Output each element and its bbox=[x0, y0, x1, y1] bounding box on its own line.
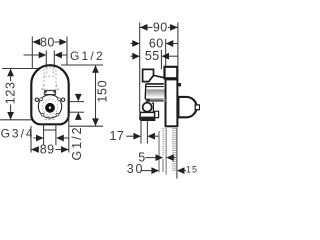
housing step right of circle bbox=[152, 103, 159, 118]
wire: extension line right of 80 dim bbox=[66, 37, 68, 65]
pipe left inner line bbox=[165, 128, 167, 175]
dimension G3/4 leaders bbox=[34, 137, 37, 139]
knob on right face bbox=[178, 83, 181, 86]
spindle bbox=[45, 103, 55, 113]
cartridge shoulder upper line bbox=[154, 75, 165, 77]
wire: long left extension line bbox=[139, 23, 141, 113]
node: outlet upper line right bbox=[69, 101, 84, 103]
arrow to G3/4 right bbox=[56, 135, 64, 142]
dome tab bbox=[195, 105, 199, 110]
wire: extension line left of 80 dim bbox=[31, 37, 33, 69]
svg-text:80: 80 bbox=[40, 35, 55, 49]
pipe left edge below coil bbox=[162, 159, 164, 172]
dimension 150 vertical line bbox=[95, 65, 97, 126]
node: outlet lower line right bbox=[69, 111, 84, 113]
foot bbox=[140, 112, 155, 120]
arrow up to lower line bbox=[75, 112, 82, 120]
svg-text:150: 150 bbox=[96, 80, 110, 103]
wire: right extension line bbox=[177, 23, 179, 66]
svg-text:15: 15 bbox=[186, 165, 198, 175]
arrow 123 top bbox=[7, 69, 14, 77]
wall box cap bbox=[165, 67, 178, 79]
ear screw right bbox=[61, 98, 64, 101]
svg-text:17: 17 bbox=[109, 129, 124, 143]
dimension 80 line bbox=[33, 41, 40, 43]
arrow to stub right bbox=[54, 52, 62, 59]
wire: 17 left extension bbox=[140, 121, 142, 144]
arrow to stub left bbox=[39, 52, 47, 59]
node: 150 top extension line bbox=[61, 64, 103, 66]
arrow 150 top bbox=[92, 65, 99, 73]
wire: 17 right extension bbox=[146, 121, 148, 144]
svg-text:89: 89 bbox=[40, 143, 55, 157]
dome outlet bbox=[178, 97, 196, 117]
pipe threads left coil bbox=[162, 128, 164, 157]
cartridge mid body left edge bbox=[144, 84, 147, 99]
svg-text:G1/2: G1/2 bbox=[70, 125, 84, 160]
wire: 30 left extension line bbox=[158, 131, 160, 173]
flange screw BL bbox=[41, 113, 44, 116]
flange circle bbox=[38, 95, 61, 118]
dimension 5 bbox=[145, 157, 156, 159]
arrow to G3/4 left bbox=[36, 135, 44, 142]
wire: 89 right extension bbox=[68, 113, 70, 153]
wall box main bbox=[166, 79, 178, 126]
cartridge shoulder lower line bbox=[146, 83, 164, 85]
dimension 17 bbox=[126, 135, 134, 137]
node: 123 top extension line bbox=[2, 68, 39, 70]
flange screw BR bbox=[56, 113, 59, 116]
dimension top stub leader lines bbox=[24, 54, 40, 56]
node: 123 bottom extension line bbox=[0, 119, 33, 121]
arrow right 80 bbox=[59, 39, 67, 46]
ear screw left bbox=[35, 98, 38, 101]
node: 150 bottom extension line bbox=[70, 125, 104, 127]
dimension 55 bbox=[131, 55, 134, 57]
wire: 55 extension line bbox=[160, 50, 162, 69]
wire: G1/2 top stub left line bbox=[45, 51, 47, 66]
cartridge dashed outline bbox=[42, 67, 59, 94]
wire: 89 left extension bbox=[30, 126, 32, 153]
handle circle bbox=[143, 103, 152, 112]
dimension 30 bbox=[140, 170, 151, 172]
arrow 150 bottom bbox=[92, 118, 99, 126]
bottom thick line bbox=[145, 98, 163, 100]
dimension 60 bbox=[131, 43, 134, 45]
svg-text:G1/2: G1/2 bbox=[70, 49, 105, 63]
pipe right edge bbox=[176, 128, 178, 179]
flange screw TL bbox=[40, 98, 43, 101]
svg-text:123: 123 bbox=[4, 81, 18, 104]
thin lines above circle bbox=[150, 98, 166, 100]
arrow left 80 bbox=[33, 39, 41, 46]
svg-text:90: 90 bbox=[153, 20, 168, 34]
arrow down to upper line bbox=[75, 94, 82, 102]
cartridge extra line bbox=[146, 86, 164, 88]
cartridge neck bbox=[45, 91, 56, 95]
wire: 60 extension line bbox=[165, 39, 167, 66]
dimension 89 bbox=[31, 149, 39, 151]
svg-text:30: 30 bbox=[127, 162, 145, 176]
dimension 123 vertical line bbox=[10, 69, 12, 82]
dimension 90 bbox=[140, 26, 153, 28]
svg-text:55: 55 bbox=[145, 49, 160, 63]
wire: G1/2 top stub right line bbox=[53, 51, 55, 66]
pipe threads right coil bbox=[172, 128, 174, 171]
arrow 123 bottom bbox=[7, 112, 14, 120]
bottom stub G3/4 bbox=[43, 124, 45, 146]
stem mark bbox=[147, 99, 150, 101]
dashed outlet marks bbox=[44, 116, 56, 118]
cartridge block top bbox=[143, 69, 154, 81]
dashed circle bbox=[42, 99, 58, 115]
shading band bbox=[146, 89, 165, 96]
valve body oval bbox=[31, 65, 68, 124]
flange screw TR bbox=[58, 98, 61, 101]
svg-text:G3/4: G3/4 bbox=[1, 126, 35, 140]
